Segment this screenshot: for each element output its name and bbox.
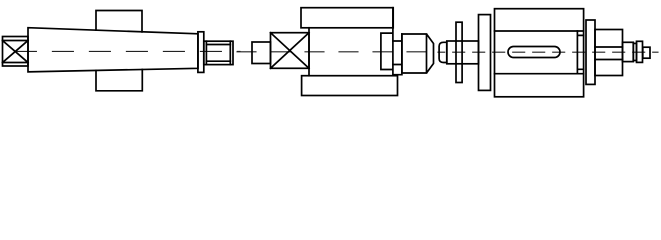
- right bearing block: [381, 8, 402, 75]
- centerline axis assembly 3: [438, 51, 658, 53]
- thin washer: [633, 43, 636, 60]
- centerline axis assembly 2: [234, 51, 436, 53]
- neck between block and cap: [393, 34, 402, 73]
- centerline axis assembly 1: [0, 50, 240, 52]
- hub upper rectangle: [96, 11, 142, 32]
- spacer square: [252, 42, 271, 64]
- outer washer: [637, 41, 643, 62]
- shaft collar disc: [198, 32, 204, 73]
- bearing crossed box (assembly 2): [271, 28, 310, 76]
- end cap with chamfered corners: [402, 34, 434, 73]
- rounded tip (assembly 3): [439, 42, 447, 62]
- hub lower rectangle: [96, 70, 142, 91]
- right bearing seat inner vertical with ticks: [577, 31, 583, 74]
- collar sleeve on stub: [447, 41, 479, 64]
- housing body: [495, 9, 584, 97]
- right flange of housing: [586, 20, 595, 84]
- key slot obround: [508, 47, 560, 58]
- bearing symbol (crossed box) at left shaft end: [3, 37, 29, 67]
- collar stack at right: nut: [623, 42, 634, 61]
- end tip square: [643, 47, 650, 58]
- lower plate: [302, 76, 398, 96]
- flange disc (tall thin): [456, 22, 462, 82]
- inner bore lines: [495, 31, 584, 74]
- threaded shaft end: [204, 41, 233, 64]
- left flange of housing: [479, 15, 491, 91]
- right sleeve: [595, 30, 623, 76]
- sleeve inner shaft lines: [595, 47, 623, 60]
- tapered shaft body: [28, 28, 198, 72]
- upper plate: [301, 8, 393, 28]
